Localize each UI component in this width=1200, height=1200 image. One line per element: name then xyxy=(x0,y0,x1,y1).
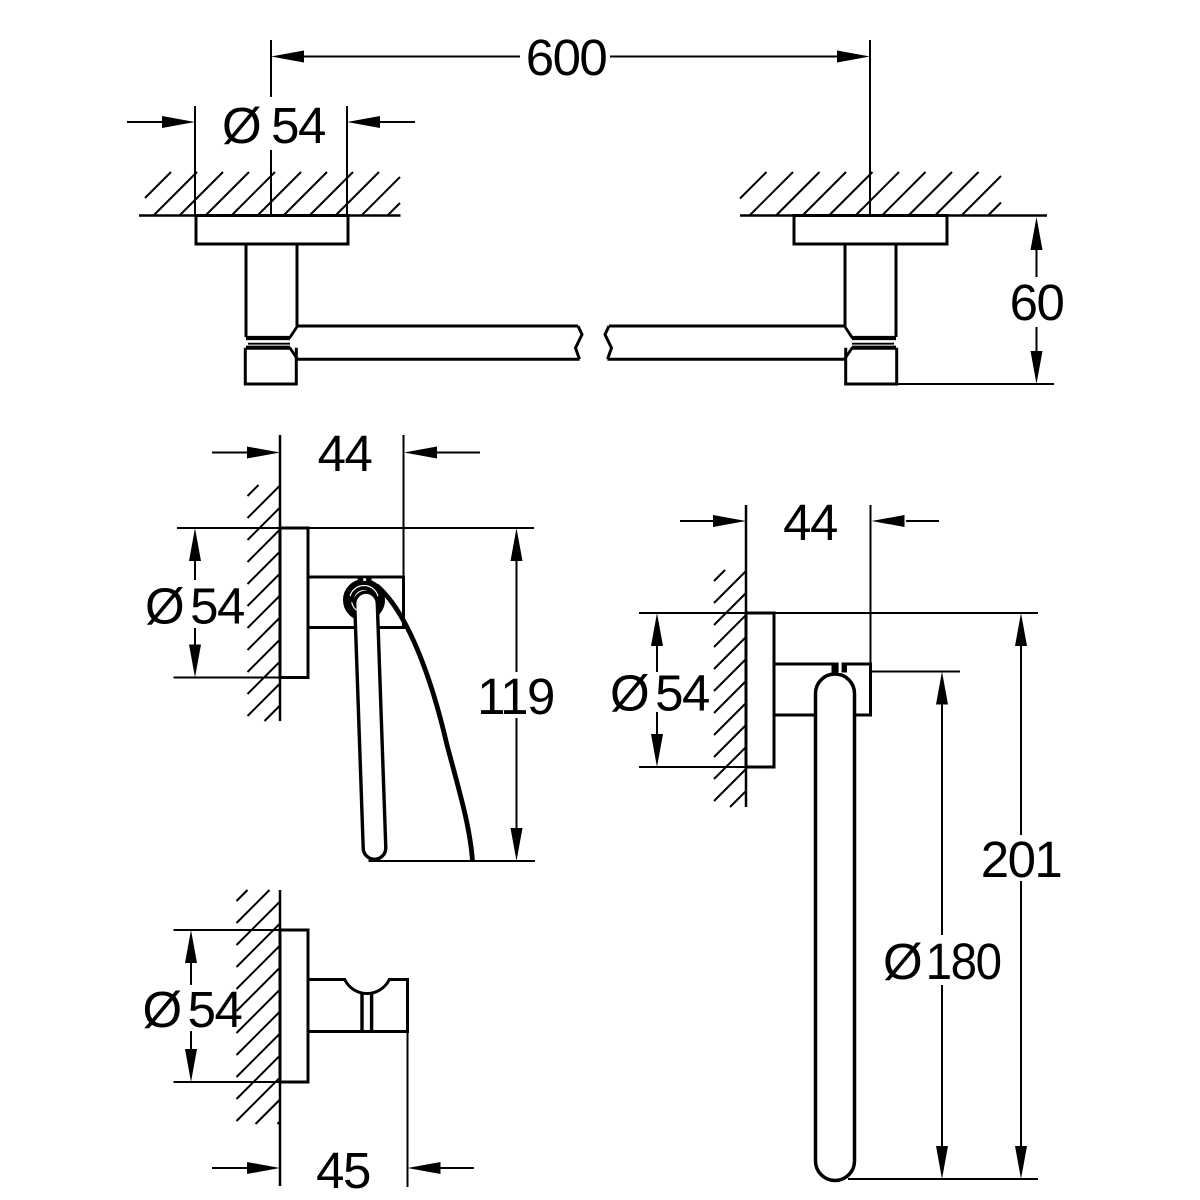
svg-text:44: 44 xyxy=(318,425,372,482)
svg-text:201: 201 xyxy=(981,831,1062,888)
svg-text:60: 60 xyxy=(1010,274,1064,331)
svg-text:45: 45 xyxy=(316,1142,370,1199)
svg-text:Ø54: Ø54 xyxy=(222,97,325,154)
svg-text:Ø: Ø xyxy=(883,933,921,990)
svg-text:Ø54: Ø54 xyxy=(143,981,242,1038)
svg-text:180: 180 xyxy=(926,933,1001,990)
svg-text:Ø54: Ø54 xyxy=(610,665,709,722)
svg-text:119: 119 xyxy=(477,668,554,725)
svg-text:44: 44 xyxy=(783,494,837,551)
svg-text:600: 600 xyxy=(526,29,607,86)
svg-text:Ø54: Ø54 xyxy=(145,578,244,635)
